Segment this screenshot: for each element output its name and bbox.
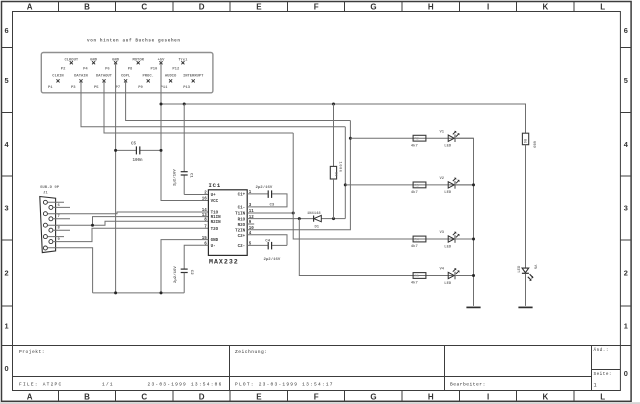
svg-text:MOTOR: MOTOR (132, 58, 144, 62)
svg-text:frei: frei (178, 57, 188, 62)
svg-text:C3: C3 (270, 203, 275, 207)
svg-text:VCC: VCC (211, 200, 219, 204)
J1 pin 7 (49, 217, 53, 221)
wire DATAIN riser to diode line (344, 127, 346, 219)
svg-text:P13: P13 (183, 86, 191, 90)
svg-text:23-03-1999 13:54:06: 23-03-1999 13:54:06 (148, 382, 223, 388)
junction bus row2 (472, 183, 475, 186)
svg-text:B: B (84, 393, 90, 402)
svg-text:U-: U- (211, 245, 216, 249)
svg-text:L: L (600, 3, 605, 12)
svg-text:G: G (370, 393, 376, 402)
wire IC1 T1IN (pin 11) (247, 212, 293, 214)
svg-text:H: H (428, 3, 434, 12)
svg-text:680: 680 (532, 141, 536, 149)
resistor R1 pull-up (333, 104, 335, 166)
junction DATAOUT/T1IN (292, 212, 295, 215)
svg-text:K: K (543, 393, 549, 402)
svg-text:5: 5 (624, 76, 628, 85)
wire LED row to bus (455, 275, 474, 277)
svg-text:C: C (141, 3, 147, 12)
svg-text:1/1: 1/1 (102, 382, 114, 388)
wire fork to IC1 R2IN (pin 8) (93, 221, 209, 225)
svg-text:+5V: +5V (158, 58, 166, 62)
svg-text:V4: V4 (440, 268, 445, 272)
junction C5 left (114, 149, 117, 152)
svg-text:T2O: T2O (211, 228, 219, 232)
ground symbol right (518, 306, 532, 308)
svg-text:GND: GND (211, 239, 219, 243)
svg-text:V2: V2 (440, 177, 445, 181)
svg-text:GND: GND (90, 58, 98, 62)
junction C5 right (160, 149, 163, 152)
svg-text:FILE: AT2PC: FILE: AT2PC (19, 382, 62, 388)
svg-text:MAX232: MAX232 (209, 259, 239, 266)
capacitor C5 100n (116, 149, 136, 151)
svg-text:R1: R1 (333, 172, 337, 176)
svg-text:C: C (141, 393, 147, 402)
wire LED row 1 (350, 137, 473, 139)
svg-text:LED: LED (444, 145, 452, 149)
svg-text:I: I (487, 393, 489, 402)
svg-text:4k7: 4k7 (411, 244, 419, 249)
svg-text:6: 6 (5, 26, 9, 35)
svg-text:P5: P5 (94, 86, 99, 90)
svg-text:I: I (487, 3, 489, 12)
svg-text:P10: P10 (151, 67, 159, 71)
svg-text:DATAOUT: DATAOUT (96, 75, 113, 79)
wire C1 to IC1 V+ (pin 2) (184, 194, 208, 196)
svg-text:Zeichnung:: Zeichnung: (235, 349, 268, 355)
svg-text:LED: LED (518, 265, 522, 273)
wire IC1 R2O (pin 9) stub (247, 223, 254, 225)
ground symbol left (466, 306, 480, 308)
svg-text:2µ2/16V: 2µ2/16V (264, 257, 281, 262)
wire V5 to ground (525, 274, 527, 306)
J1 pin 8 (49, 228, 53, 232)
svg-text:P11: P11 (161, 86, 169, 90)
junction R1 bottom (332, 217, 335, 220)
svg-text:R4: R4 (415, 239, 419, 243)
wire DATAOUT riser to LED row 3 (293, 133, 473, 239)
junction rail IC GND (160, 291, 163, 294)
svg-text:Seite:: Seite: (594, 372, 612, 377)
svg-text:F: F (314, 393, 319, 402)
svg-text:100k: 100k (337, 162, 342, 173)
svg-text:R2O: R2O (238, 224, 246, 228)
wire LED row to bus (455, 238, 474, 240)
wire IC1 V- (pin 6) to C2 (184, 245, 208, 269)
wire J1 pin5 to GND rail (48, 248, 93, 293)
svg-text:P8: P8 (128, 67, 133, 71)
resistor R3 4k7 (413, 182, 426, 188)
svg-text:LED: LED (444, 282, 452, 286)
wire P5 DATAOUT down and across (104, 81, 293, 133)
svg-text:G: G (370, 3, 376, 12)
svg-text:INTERRUPT: INTERRUPT (183, 75, 204, 79)
wire LED row 2 (345, 184, 473, 186)
svg-text:H: H (428, 393, 434, 402)
svg-text:T2IN: T2IN (235, 230, 246, 234)
junction V2 row (344, 183, 347, 186)
svg-text:0: 0 (624, 369, 628, 378)
diode D1 1N4148 (313, 216, 315, 222)
svg-text:Bearbeiter:: Bearbeiter: (450, 382, 486, 388)
svg-text:11: 11 (249, 210, 255, 214)
svg-text:K: K (543, 3, 549, 12)
LED V5 (522, 268, 529, 273)
capacitor C1 2u2/16V (183, 104, 185, 172)
J1 pin 2 (43, 212, 47, 216)
svg-text:1: 1 (624, 321, 628, 330)
wire P7 COPL down and across (126, 81, 351, 121)
wire +5V rail (161, 104, 526, 133)
svg-text:P3: P3 (71, 86, 76, 90)
J1 pin 3 (43, 223, 47, 227)
svg-text:T1IN: T1IN (235, 213, 246, 217)
J1 pin 4 (43, 235, 47, 239)
svg-text:V1: V1 (440, 130, 445, 134)
svg-text:15: 15 (202, 237, 208, 241)
svg-text:4k7: 4k7 (411, 143, 419, 148)
svg-text:von hinten auf Buchse gesehen: von hinten auf Buchse gesehen (87, 38, 181, 43)
capacitor C4 2u2/16V (C2+/C2-) (247, 235, 287, 246)
svg-text:C1-: C1- (238, 207, 246, 211)
svg-text:R3: R3 (415, 184, 419, 188)
svg-text:P12: P12 (172, 67, 180, 71)
svg-text:C2-: C2- (238, 245, 246, 249)
bottom gray strip (0, 402, 640, 404)
svg-text:IC1: IC1 (209, 182, 221, 189)
svg-text:V5: V5 (533, 265, 537, 270)
svg-text:R1O: R1O (238, 218, 246, 222)
svg-text:P6: P6 (105, 67, 110, 71)
svg-text:B: B (84, 3, 90, 12)
resistor R5 4k7 (413, 273, 426, 279)
wire P3 DATAIN down and across (81, 81, 345, 127)
svg-text:5: 5 (5, 76, 9, 85)
junction +5V riser (160, 103, 163, 106)
svg-text:C2+: C2+ (238, 235, 246, 239)
wire R6 to LED V5 (525, 145, 527, 268)
svg-text:L: L (600, 393, 605, 402)
svg-text:3: 3 (5, 203, 9, 212)
svg-text:J1: J1 (43, 191, 48, 195)
svg-text:D: D (199, 3, 205, 12)
svg-text:P1: P1 (48, 86, 53, 90)
svg-text:DATAIN: DATAIN (74, 75, 88, 79)
wire J1 pin6 stub (53, 206, 70, 208)
svg-text:2: 2 (5, 268, 9, 277)
wire ground rail (93, 292, 185, 294)
svg-text:PROC.: PROC. (142, 75, 153, 79)
svg-text:D1: D1 (315, 226, 320, 230)
svg-text:2: 2 (624, 268, 628, 277)
svg-text:R2IN: R2IN (211, 221, 222, 225)
svg-text:T1O: T1O (211, 212, 219, 216)
svg-text:16: 16 (202, 198, 208, 202)
title block (13, 345, 621, 347)
svg-text:C1: C1 (189, 173, 193, 178)
svg-text:C1+: C1+ (238, 194, 246, 198)
svg-text:F: F (314, 3, 319, 12)
svg-text:LED: LED (444, 191, 452, 195)
capacitor C2 2u2/16V (181, 268, 188, 270)
wire J1 pin9 to IC1 T2O (pin 7) (53, 228, 208, 241)
svg-text:Projekt:: Projekt: (19, 349, 45, 355)
wire P10 +5V down to VCC (161, 63, 208, 201)
svg-text:13: 13 (202, 214, 208, 218)
svg-text:100n: 100n (133, 159, 144, 163)
wire LED row to bus (455, 184, 474, 186)
svg-text:LED: LED (444, 245, 452, 249)
svg-text:12: 12 (249, 216, 255, 220)
svg-text:AUDIO: AUDIO (165, 75, 177, 79)
svg-text:14: 14 (202, 209, 208, 213)
resistor R4 4k7 (413, 236, 426, 242)
capacitor C3 2u2/16V (C1+/C1-) (247, 193, 268, 195)
svg-text:U+: U+ (211, 194, 217, 198)
svg-text:P7: P7 (116, 86, 121, 90)
wire P6 GND down to ground rail (115, 63, 117, 293)
svg-text:R5: R5 (415, 275, 419, 279)
svg-text:1: 1 (594, 383, 597, 389)
junction D1/V4 branch (298, 217, 301, 220)
svg-text:P9: P9 (138, 86, 143, 90)
wire J1 pin7 stub (53, 218, 70, 220)
wire J1 pin3 to IC1 R1IN (pin 13) (48, 217, 209, 226)
junction R1 branch (332, 103, 335, 106)
wire J1 pin2 to IC1 T1O (pin 14) (48, 212, 209, 214)
svg-text:D: D (199, 393, 205, 402)
svg-text:A: A (27, 3, 33, 12)
svg-text:10: 10 (249, 227, 255, 231)
wire V4 branch down to LED row 4 (299, 219, 473, 276)
svg-text:4k7: 4k7 (411, 190, 419, 195)
junction rail P6 (114, 291, 117, 294)
wire J1 pin8 stub (53, 229, 70, 231)
svg-text:R6: R6 (522, 139, 526, 143)
svg-text:GND: GND (112, 58, 120, 62)
wire IC1 GND (pin 15) to rail (161, 240, 208, 293)
svg-text:CLKIN: CLKIN (52, 75, 64, 79)
junction V1 row (349, 137, 352, 140)
svg-text:6: 6 (624, 26, 628, 35)
junction bus row3 (472, 238, 475, 241)
svg-text:2µ2/16V: 2µ2/16V (173, 266, 178, 283)
svg-text:R2: R2 (415, 138, 419, 142)
svg-text:Änd.:: Änd.: (594, 348, 609, 353)
svg-text:C5: C5 (131, 143, 137, 147)
svg-text:2µ2/16V: 2µ2/16V (173, 169, 178, 186)
svg-text:P2: P2 (61, 67, 66, 71)
junction J1 pin3 fork (91, 224, 94, 227)
svg-text:0: 0 (5, 364, 9, 373)
svg-text:3: 3 (624, 203, 628, 212)
resistor R2 4k7 (413, 135, 426, 141)
svg-text:E: E (256, 393, 262, 402)
svg-text:1N4148: 1N4148 (307, 212, 321, 216)
wire J1 pin1 stub (48, 201, 64, 203)
svg-text:COPL: COPL (121, 75, 131, 79)
svg-text:V3: V3 (440, 231, 445, 235)
svg-text:P4: P4 (83, 67, 88, 71)
wire LED bus to ground (455, 138, 474, 306)
J1 pin 9 (49, 240, 53, 244)
wire IC1 R1O (pin 12) line (247, 218, 313, 220)
svg-text:4k7: 4k7 (411, 281, 419, 286)
svg-text:A: A (27, 393, 33, 402)
junction bus row4 (472, 274, 475, 277)
svg-text:CLKOUT: CLKOUT (64, 58, 78, 62)
svg-text:PLOT: 23-03-1999 13:54:17: PLOT: 23-03-1999 13:54:17 (235, 382, 334, 388)
svg-text:E: E (256, 3, 262, 12)
svg-text:SUB-D 9P: SUB-D 9P (40, 186, 60, 190)
J1 pin 6 (49, 205, 53, 209)
wire J1 pin4 stub (48, 236, 64, 238)
svg-text:C2: C2 (189, 270, 193, 275)
junction C1 branch (183, 103, 186, 106)
svg-text:1: 1 (5, 321, 9, 330)
J1 pin 1 (43, 200, 47, 204)
resistor R6 680 (522, 133, 528, 145)
J1 pin 5 (43, 246, 47, 250)
svg-text:R1IN: R1IN (211, 216, 222, 220)
svg-text:C4: C4 (265, 240, 270, 244)
svg-text:2µ2/16V: 2µ2/16V (256, 185, 273, 190)
wire COPL riser to T2IN (247, 121, 350, 230)
IC IC1 MAX232 body (208, 190, 247, 256)
